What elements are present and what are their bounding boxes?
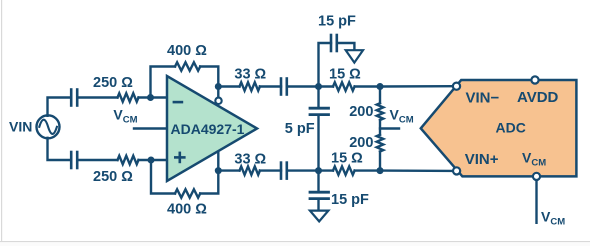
wire node to R15 lower <box>319 169 334 171</box>
ADC block <box>421 76 577 180</box>
wire amp out upper to R33 <box>218 85 239 87</box>
wire node2 down to R200 top <box>379 87 381 104</box>
wire Vcm tap stub <box>380 127 399 129</box>
wire VIN top vertical <box>48 98 72 116</box>
svg-text:VCM: VCM <box>541 209 565 228</box>
node junction upper output <box>215 83 222 90</box>
ground bottom <box>310 211 329 222</box>
wire between R200s with Vcm tap <box>379 120 381 135</box>
wire node to R15 upper <box>319 85 334 87</box>
pin circle VIN+ <box>453 167 460 174</box>
resistor 15 ohm upper <box>333 82 355 90</box>
wire 15pF top branch vertical <box>319 43 332 87</box>
capacitor input lower <box>71 152 77 168</box>
capacitor C 5pF differential <box>310 87 329 171</box>
wire 15pF top to ground <box>337 43 355 50</box>
wire 15pF bottom branch vertical <box>317 171 319 191</box>
wire R250 upper to amp <box>139 96 167 98</box>
wire VIN bottom vertical <box>48 138 72 160</box>
wire Vcm stub into amp <box>134 127 167 129</box>
resistor 33 ohm upper <box>240 82 260 90</box>
node junction lower output <box>215 167 222 174</box>
svg-text:15 pF: 15 pF <box>331 192 369 208</box>
wire R250 lower to amp <box>139 159 167 161</box>
wire feedback lower left vertical <box>151 160 175 194</box>
pin circle AVDD <box>531 76 538 83</box>
resistor 400 ohm upper <box>175 62 200 70</box>
resistor 200 ohm upper (vertical) <box>377 103 384 120</box>
wire feedback upper left vertical <box>151 67 176 98</box>
node junction lower R200 <box>377 167 384 174</box>
capacitor series upper <box>281 79 287 95</box>
wire feedback upper right down to output node <box>200 67 218 97</box>
svg-text:VCM: VCM <box>113 107 137 126</box>
svg-text:200: 200 <box>349 104 373 120</box>
wire node2 to ADC VIN+ <box>380 169 452 172</box>
svg-text:33 Ω: 33 Ω <box>234 152 266 168</box>
capacitor series lower <box>281 163 287 179</box>
wire 15pF bottom to ground <box>317 200 319 211</box>
svg-text:VIN: VIN <box>9 119 32 135</box>
svg-text:VIN+: VIN+ <box>465 151 499 168</box>
resistor 250 ohm lower <box>118 156 139 164</box>
svg-text:VCM: VCM <box>390 107 414 126</box>
svg-text:15 Ω: 15 Ω <box>331 151 363 167</box>
svg-text:5 pF: 5 pF <box>285 121 315 137</box>
svg-text:15 Ω: 15 Ω <box>329 67 361 83</box>
node junction upper R200 <box>377 83 384 90</box>
border frame bottom <box>0 241 590 242</box>
svg-text:ADC: ADC <box>496 119 526 135</box>
op-amp U1 ADA4927-1 triangle <box>167 76 257 181</box>
wire cap to node upper <box>287 85 319 87</box>
wire node2 to ADC VIN- <box>380 85 452 88</box>
node junction lower input <box>148 157 155 164</box>
svg-text:15 pF: 15 pF <box>318 14 356 30</box>
svg-text:200: 200 <box>349 135 373 151</box>
svg-text:250 Ω: 250 Ω <box>93 75 133 91</box>
node junction upper input <box>147 94 154 101</box>
wire R200 bottom to lower rail <box>379 152 381 171</box>
ground top <box>346 50 363 62</box>
wire cap to R 250 lower <box>77 159 117 161</box>
svg-text:250 Ω: 250 Ω <box>93 169 133 185</box>
resistor 400 ohm lower <box>175 189 200 197</box>
node junction lower filter <box>315 167 322 174</box>
wire cap to node lower <box>287 169 319 171</box>
capacitor C 15pF bottom <box>310 192 329 198</box>
resistor 15 ohm lower <box>333 166 355 174</box>
wire cap to R 250 upper <box>77 96 117 98</box>
resistor 33 ohm lower <box>240 166 260 174</box>
svg-text:AVDD: AVDD <box>517 89 559 106</box>
capacitor input upper <box>71 90 77 106</box>
svg-text:33 Ω: 33 Ω <box>234 67 266 83</box>
svg-text:ADA4927-1: ADA4927-1 <box>171 121 245 137</box>
wire amp out lower to R33 <box>218 169 239 171</box>
plus input symbol <box>174 152 186 164</box>
inverting output bubble <box>215 98 221 104</box>
pin circle VIN- <box>453 83 460 90</box>
svg-text:VIN−: VIN− <box>466 89 500 106</box>
wire R33 upper to cap <box>260 85 281 87</box>
pin circle VCM <box>533 173 540 180</box>
border frame left <box>1 0 2 242</box>
junction node dots <box>147 83 384 174</box>
source V1 VIN sine generator <box>37 115 60 138</box>
resistor 250 ohm upper <box>118 93 139 101</box>
node junction upper filter <box>315 83 322 90</box>
wire R33 lower to cap <box>260 169 281 171</box>
resistor 200 ohm lower (vertical) <box>377 135 384 152</box>
svg-text:400 Ω: 400 Ω <box>167 43 207 59</box>
wire R15 lower to node2 <box>355 169 380 171</box>
minus input symbol <box>173 101 184 104</box>
svg-text:400 Ω: 400 Ω <box>167 202 207 218</box>
wire feedback lower right up to output node <box>200 152 218 194</box>
capacitor C 15pF top <box>331 35 337 51</box>
wire R15 upper to node2 <box>355 85 380 87</box>
wire VCM output down <box>535 181 537 224</box>
